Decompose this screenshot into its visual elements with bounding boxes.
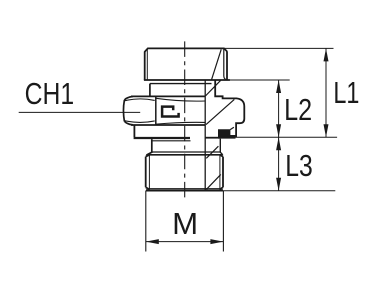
arrowhead L1 down [324,124,329,137]
svg-text:L3: L3 [285,148,313,183]
svg-text:CH1: CH1 [25,76,75,111]
centerline [184,41,186,201]
seal retainer groove black block [218,129,236,138]
section cut plane vertical [204,80,206,190]
svg-text:L2: L2 [284,92,312,127]
arrowhead L2 up [276,80,281,93]
seal under-edge neck right [220,139,223,155]
svg-text:M: M [172,206,198,241]
hatch line bottom thread [207,174,221,189]
CH1 leader line [19,111,141,113]
shared datum extension line [230,136,337,138]
top stud right outer edge [226,51,228,80]
dimension line L2 L3 [278,80,280,191]
hex top-left corner arc [124,96,133,100]
bottom thread chamfer edge line [149,187,220,189]
hex top edge [131,95,205,97]
bottom thread right root line [219,155,221,190]
section staircase and hex right profile [215,80,244,137]
L2 top extension line [228,79,290,81]
washer bottom sectioned face right [205,137,220,139]
hatch line below seal [206,146,218,158]
top stud top edge with chamfers [145,48,228,52]
bottom thread left root line [148,155,150,190]
arrowhead M right [210,239,223,244]
top stud left outer edge [144,52,146,80]
washer bottom thick sealing face [134,137,190,139]
neck left edge [149,84,151,97]
seal groove step diagonal [230,127,234,129]
bottom thread top edge [146,154,222,156]
arrowhead L3 up [276,137,281,150]
hatch line hex band [206,99,234,124]
arrowhead L1 up [324,48,329,61]
M left extension line [145,191,147,252]
arrowhead L3 down [276,178,281,191]
dimension line L1 [325,48,327,137]
arrowhead L2 down [276,124,281,137]
L3 bottom extension line [223,190,335,192]
undercut groove top edge [152,140,191,142]
hex front flat top chamfer arc [156,98,205,101]
logo mark on hex flat [162,107,179,117]
top stud left thread root line [146,49,148,80]
hatch line upper [205,80,220,96]
hex front flat bottom chamfer arc [156,122,205,124]
hex corner line [155,97,157,125]
undercut groove bottom edge [152,151,220,153]
bottom thread end face thick line [146,189,223,191]
hex bottom edge [131,124,205,126]
dimension line M [146,241,224,243]
arrowhead M left [146,239,159,244]
bottom thread left outer edge [146,155,150,190]
svg-text:L1: L1 [333,75,359,110]
hex left flat bottom chamfer arc [125,121,155,123]
runout line under stud [150,83,212,85]
hex bottom-left corner arc [124,121,133,125]
M right extension line [222,191,224,252]
undercut neck left edge [147,139,152,155]
top stud bottom edge [144,79,230,81]
L1 top extension line [224,47,334,49]
hex left flat top chamfer arc [125,99,155,101]
bottom thread right outer edge [220,155,223,190]
hex left face arc [122,100,125,121]
top stud section bore vertical [224,49,228,80]
washer left edge [133,125,135,137]
top stud section bore slant [212,49,222,79]
